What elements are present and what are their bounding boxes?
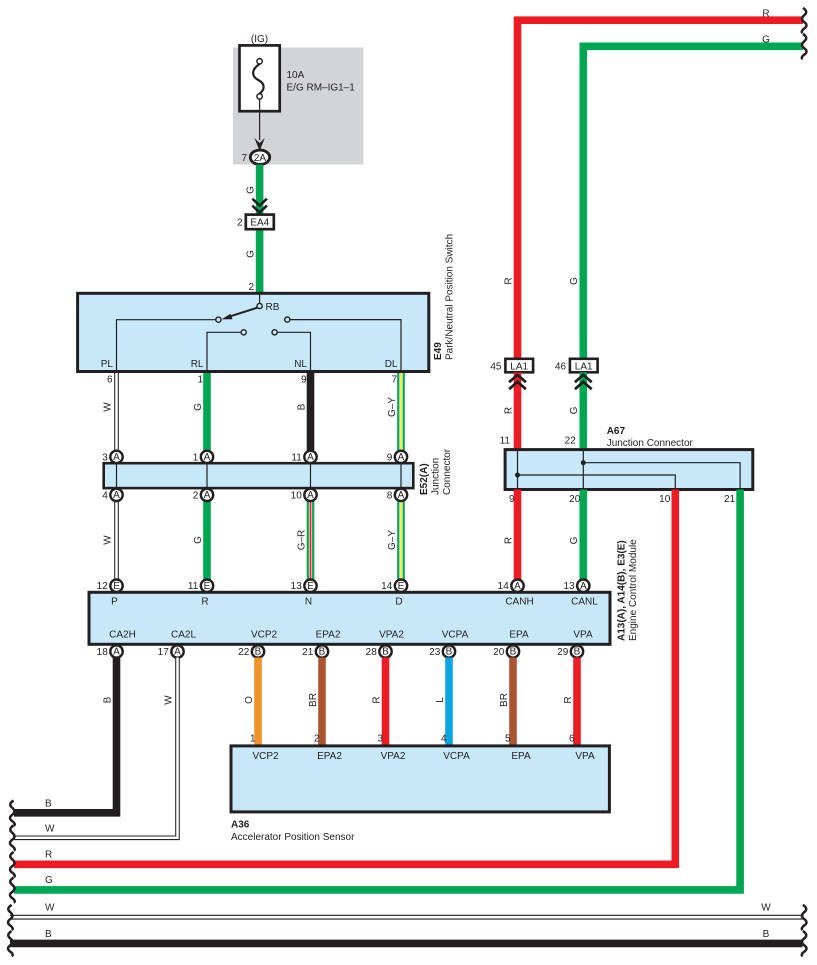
wire G-Y from E52 pin 8 to ECM pin 14 (397, 495, 405, 586)
svg-text:E: E (204, 581, 211, 592)
svg-text:21: 21 (302, 647, 314, 658)
wire B bottom full width (10, 940, 803, 948)
svg-text:O: O (244, 696, 255, 704)
svg-text:R: R (201, 596, 208, 607)
svg-text:A: A (204, 452, 211, 463)
connector 45 LA1 (490, 359, 533, 373)
wire BR from ECM EPA to A36 pin 5 (509, 658, 517, 746)
svg-text:A: A (113, 490, 120, 501)
svg-text:E49: E49 (433, 342, 444, 360)
wire G from A67 pin 21 to bottom (14, 490, 740, 890)
svg-text:EPA: EPA (511, 751, 531, 762)
svg-text:B: B (763, 929, 770, 940)
svg-text:20: 20 (493, 647, 505, 658)
wire G from E52 pin 2 to ECM pin 11 (203, 495, 211, 586)
svg-text:8: 8 (387, 490, 393, 501)
park/neutral position switch E49 (78, 293, 429, 371)
svg-text:Park/Neutral Position Switch: Park/Neutral Position Switch (445, 234, 456, 360)
svg-text:B: B (102, 696, 113, 703)
internal wire 22-20 (582, 450, 584, 490)
svg-text:Accelerator Position Sensor: Accelerator Position Sensor (231, 832, 355, 843)
svg-text:1: 1 (197, 375, 203, 386)
svg-text:PL: PL (101, 359, 114, 370)
svg-text:L: L (435, 697, 446, 703)
svg-text:E: E (307, 581, 314, 592)
svg-text:A: A (113, 647, 120, 658)
svg-text:G: G (569, 277, 580, 285)
svg-text:14: 14 (498, 581, 510, 592)
gray background block (233, 48, 364, 165)
svg-text:R: R (45, 850, 52, 861)
svg-text:6: 6 (107, 375, 113, 386)
wire from fuse to connector 2A (259, 99, 261, 140)
wire R from ECM VPA2 to A36 pin 3 (382, 658, 390, 746)
svg-text:EPA2: EPA2 (317, 751, 342, 762)
wire R from A67 pin 9 to ECM CANH (514, 490, 522, 586)
junction connector A67 (505, 450, 753, 490)
svg-text:EPA: EPA (509, 629, 529, 640)
svg-text:E/G RM–IG1–1: E/G RM–IG1–1 (287, 83, 356, 94)
svg-text:(IG): (IG) (251, 34, 268, 45)
chevron arrows into 45 LA1 (509, 375, 526, 389)
svg-text:10: 10 (291, 490, 303, 501)
svg-text:CANH: CANH (505, 596, 533, 607)
svg-text:2: 2 (314, 734, 320, 745)
svg-text:A36: A36 (231, 820, 250, 831)
svg-text:G–Y: G–Y (387, 397, 398, 417)
svg-text:22: 22 (565, 436, 577, 447)
svg-text:W: W (102, 402, 113, 412)
break symbol R (10, 852, 15, 877)
svg-text:R: R (762, 9, 769, 20)
arrowhead into 2A (254, 138, 264, 151)
svg-text:2: 2 (237, 218, 243, 229)
svg-text:29: 29 (557, 647, 569, 658)
svg-text:21: 21 (724, 494, 736, 505)
E52 top pins (102, 451, 407, 464)
svg-text:14: 14 (381, 581, 393, 592)
svg-text:A: A (514, 581, 521, 592)
svg-text:23: 23 (429, 647, 441, 658)
svg-text:A: A (174, 647, 181, 658)
svg-text:10: 10 (659, 494, 671, 505)
break symbols W bottom (8, 905, 13, 930)
svg-text:VCPA: VCPA (442, 629, 469, 640)
svg-text:2: 2 (193, 490, 199, 501)
E52 bottom pins (102, 489, 407, 502)
svg-text:A: A (398, 452, 405, 463)
wire G-Y from E49 DL to E52 pin 9 (397, 371, 405, 457)
break symbol G (10, 878, 15, 903)
internal wire 11-9 (517, 450, 519, 490)
svg-text:13: 13 (291, 581, 303, 592)
svg-text:45: 45 (490, 362, 502, 373)
svg-text:EPA2: EPA2 (316, 629, 341, 640)
wire O from ECM VCP2 to A36 pin 1 (254, 658, 262, 746)
svg-text:Junction: Junction (431, 458, 442, 495)
svg-text:R: R (563, 696, 574, 703)
wire W bottom full width (10, 915, 803, 920)
svg-text:DL: DL (385, 359, 398, 370)
svg-text:Junction Connector: Junction Connector (607, 438, 694, 449)
svg-text:11: 11 (188, 581, 199, 592)
wire R between LA1 and A67 (514, 372, 522, 449)
svg-text:P: P (111, 596, 118, 607)
svg-text:G: G (45, 875, 53, 886)
svg-text:G: G (762, 35, 770, 46)
svg-text:B: B (446, 647, 453, 658)
wire G from 2A to E49 (green) (256, 165, 264, 294)
node RB (259, 294, 261, 304)
svg-text:4: 4 (102, 490, 108, 501)
chevron arrows into EA4 (252, 199, 267, 213)
svg-text:R: R (503, 277, 514, 284)
svg-text:VCP2: VCP2 (251, 629, 278, 640)
svg-text:NL: NL (294, 359, 307, 370)
wire G between LA1 and A67 (579, 372, 587, 449)
svg-text:W: W (102, 535, 113, 545)
svg-text:Engine Control Module: Engine Control Module (628, 539, 639, 641)
svg-text:VPA2: VPA2 (381, 751, 406, 762)
svg-text:B: B (45, 798, 52, 809)
svg-text:11: 11 (500, 436, 511, 447)
wire W from E52 pin 4 to ECM pin 12 (114, 495, 119, 586)
wire B from E49 NL to E52 pin 11 (307, 371, 315, 457)
contact PL (216, 317, 221, 322)
fuse 10A E/G RM-IG1-1 (240, 45, 356, 111)
ECM top pins (97, 580, 590, 593)
wire L from ECM VCPA to A36 pin 4 (445, 658, 453, 746)
svg-text:W: W (45, 824, 55, 835)
svg-text:B: B (319, 647, 326, 658)
svg-text:E: E (113, 581, 120, 592)
svg-text:22: 22 (238, 647, 250, 658)
svg-text:W: W (761, 903, 771, 914)
svg-text:1: 1 (250, 734, 256, 745)
svg-text:7: 7 (241, 153, 247, 164)
svg-text:A: A (204, 490, 211, 501)
break symbol right G (802, 34, 807, 59)
svg-text:2: 2 (248, 282, 254, 293)
svg-text:LA1: LA1 (510, 361, 528, 372)
svg-text:A67: A67 (607, 426, 626, 437)
svg-text:VPA: VPA (575, 751, 595, 762)
contact NL (272, 330, 277, 335)
svg-text:A: A (113, 452, 120, 463)
svg-text:VCPA: VCPA (443, 751, 470, 762)
junction connector E52(A) (104, 463, 414, 488)
svg-text:9: 9 (301, 375, 307, 386)
accelerator position sensor A36 (231, 746, 609, 812)
junction dot green branch (581, 460, 586, 465)
svg-text:A: A (307, 490, 314, 501)
svg-text:1: 1 (193, 452, 199, 463)
svg-text:R: R (503, 407, 514, 414)
svg-text:B: B (510, 647, 517, 658)
connector 46 LA1 (555, 359, 598, 373)
svg-text:6: 6 (569, 734, 575, 745)
svg-text:VPA: VPA (573, 629, 593, 640)
svg-text:N: N (305, 596, 312, 607)
svg-text:5: 5 (505, 734, 511, 745)
svg-text:A: A (580, 581, 587, 592)
svg-text:VPA2: VPA2 (379, 629, 404, 640)
svg-text:W: W (163, 695, 174, 705)
svg-text:28: 28 (366, 647, 378, 658)
break symbol W (10, 826, 15, 851)
connector 2 EA4 (237, 215, 274, 230)
svg-text:BR: BR (308, 693, 319, 707)
svg-text:G: G (245, 186, 256, 194)
svg-text:B: B (255, 647, 262, 658)
svg-text:E52(A): E52(A) (419, 463, 430, 495)
svg-text:9: 9 (387, 452, 393, 463)
contact RL (241, 330, 246, 335)
wire R from A67 pin 10 to bottom (14, 490, 675, 865)
svg-text:G: G (569, 536, 580, 544)
ECM bottom pins (97, 645, 584, 658)
wire R from top right (518, 20, 804, 359)
svg-text:B: B (45, 929, 52, 940)
wire W from ECM CA2L to left (14, 658, 178, 838)
svg-text:3: 3 (377, 734, 383, 745)
svg-text:E: E (398, 581, 405, 592)
svg-text:G: G (245, 250, 256, 258)
svg-text:R: R (503, 537, 514, 544)
svg-text:2A: 2A (254, 153, 267, 164)
svg-text:RB: RB (266, 302, 280, 313)
wire B from ECM CA2H to left (14, 658, 117, 813)
svg-text:W: W (45, 903, 55, 914)
svg-text:46: 46 (555, 362, 567, 373)
break symbol right R (802, 8, 807, 33)
svg-text:CANL: CANL (571, 596, 598, 607)
connector pin 7 2A (241, 150, 269, 164)
svg-text:4: 4 (441, 734, 447, 745)
junction dot red branch (515, 473, 520, 478)
svg-text:7: 7 (391, 375, 397, 386)
svg-text:B: B (574, 647, 581, 658)
svg-text:3: 3 (102, 452, 108, 463)
switch lever (228, 308, 258, 318)
svg-text:G: G (193, 536, 204, 544)
svg-text:EA4: EA4 (250, 218, 269, 229)
svg-text:G–Y: G–Y (387, 530, 398, 550)
svg-text:D: D (395, 596, 402, 607)
svg-text:13: 13 (563, 581, 575, 592)
svg-text:CA2H: CA2H (109, 629, 136, 640)
svg-text:BR: BR (499, 693, 510, 707)
contact DL (285, 317, 290, 322)
svg-text:VCP2: VCP2 (252, 751, 279, 762)
svg-text:G: G (193, 403, 204, 411)
wire W from E49 PL to E52 pin 3 (114, 371, 119, 457)
wire G from A67 pin 20 to ECM CANL (579, 490, 587, 586)
svg-text:Connector: Connector (442, 448, 453, 495)
wire R from ECM VPA to A36 pin 6 (573, 658, 581, 746)
chevron arrows into 46 LA1 (575, 375, 592, 389)
svg-text:10A: 10A (287, 70, 305, 81)
svg-text:CA2L: CA2L (171, 629, 196, 640)
svg-text:G–R: G–R (296, 530, 307, 551)
svg-text:R: R (371, 696, 382, 703)
svg-text:RL: RL (191, 359, 204, 370)
svg-text:A13(A), A14(B), E3(E): A13(A), A14(B), E3(E) (617, 540, 628, 641)
wire G-R from E52 pin 10 to ECM pin 13 (307, 495, 315, 586)
break symbols B bottom (8, 931, 13, 956)
svg-text:12: 12 (97, 581, 109, 592)
svg-text:B: B (382, 647, 389, 658)
svg-text:LA1: LA1 (575, 361, 593, 372)
wire BR from ECM EPA2 to A36 pin 2 (318, 658, 326, 746)
break symbol B (10, 801, 15, 826)
svg-text:B: B (296, 403, 307, 410)
engine control module box (89, 592, 610, 644)
svg-text:20: 20 (569, 494, 581, 505)
svg-text:17: 17 (158, 647, 170, 658)
svg-text:G: G (569, 406, 580, 414)
wire G from top right (583, 46, 803, 359)
svg-text:A: A (307, 452, 314, 463)
svg-text:18: 18 (97, 647, 109, 658)
wire G from E49 RL to E52 pin 1 (203, 371, 211, 457)
svg-text:11: 11 (291, 452, 302, 463)
svg-text:A: A (398, 490, 405, 501)
